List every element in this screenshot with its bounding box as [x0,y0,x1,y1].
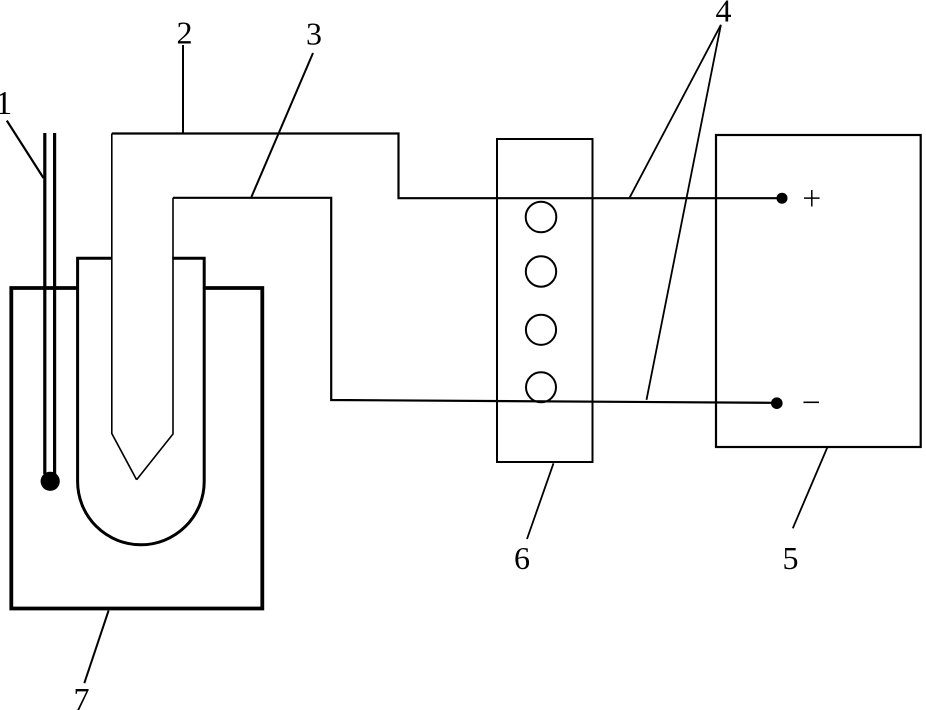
svg-text:3: 3 [306,16,322,52]
minus sign [804,401,820,403]
battery box 5 [716,135,921,447]
rheostat box 6 [497,139,593,462]
leader line 6 [527,463,554,539]
test tube [78,258,205,544]
leader line 4b to negative wire [647,25,721,400]
svg-text:4: 4 [716,0,732,28]
svg-text:6: 6 [514,540,530,576]
wire from electrode 3 to battery negative [173,198,775,403]
leader line 3 [251,53,313,197]
inner electrode tube right wall [137,198,173,480]
thermometer stem right line [53,133,56,474]
svg-text:5: 5 [783,540,799,576]
svg-text:7: 7 [74,681,90,710]
leader line 2 [182,45,184,134]
wire from electrode 2 to battery positive [112,134,780,199]
rheostat circle 1 [526,202,557,233]
thermometer stem left line [43,133,46,474]
rheostat circle 4 [526,372,556,402]
leader line 5 [793,447,828,528]
positive terminal dot [777,193,788,204]
beaker 7 [11,288,262,609]
inner electrode tube left wall [112,134,137,480]
negative terminal dot [771,397,783,409]
rheostat circle 3 [526,315,556,345]
svg-text:2: 2 [177,15,193,51]
leader line 4a to positive wire [630,25,721,198]
plus sign [804,197,820,199]
svg-text:1: 1 [0,85,12,122]
rheostat circle 2 [526,256,556,286]
leader line 1 [7,121,44,178]
leader line 7 [84,611,108,684]
thermometer bulb [41,472,60,491]
